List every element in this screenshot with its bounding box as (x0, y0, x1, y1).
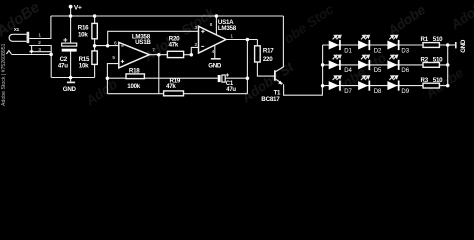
svg-text:GND: GND (63, 86, 77, 93)
svg-text:R1: R1 (421, 36, 429, 43)
svg-text:Adobe Stock | #752608951: Adobe Stock | #752608951 (1, 43, 7, 106)
svg-text:510: 510 (433, 77, 443, 84)
svg-text:47k: 47k (166, 83, 176, 90)
svg-text:BC817: BC817 (261, 96, 280, 103)
svg-text:47u: 47u (226, 87, 236, 93)
svg-text:4: 4 (212, 49, 215, 55)
svg-text:100k: 100k (127, 83, 140, 90)
svg-text:D7: D7 (344, 89, 352, 95)
svg-text:R17: R17 (263, 48, 274, 55)
svg-text:6: 6 (114, 40, 117, 46)
svg-text:5: 5 (112, 55, 115, 61)
svg-text:47u: 47u (58, 63, 68, 70)
svg-text:R18: R18 (129, 67, 140, 74)
svg-text:220: 220 (263, 56, 273, 63)
svg-text:10k: 10k (78, 32, 88, 39)
svg-text:D5: D5 (374, 68, 382, 74)
svg-text:D1: D1 (344, 48, 352, 54)
svg-text:GND: GND (460, 39, 467, 53)
svg-text:GND: GND (208, 63, 222, 70)
svg-text:X1: X1 (14, 27, 20, 32)
svg-text:10k: 10k (79, 63, 89, 70)
svg-text:D9: D9 (401, 89, 409, 95)
svg-text:V+: V+ (74, 5, 82, 12)
svg-text:8: 8 (210, 22, 213, 28)
svg-text:2: 2 (195, 42, 198, 48)
svg-text:D8: D8 (374, 89, 382, 95)
svg-text:1: 1 (230, 33, 233, 39)
svg-text:47k: 47k (169, 41, 179, 48)
svg-text:3: 3 (38, 47, 41, 53)
svg-text:3: 3 (195, 25, 198, 31)
svg-text:510: 510 (433, 57, 443, 64)
svg-text:7: 7 (152, 48, 155, 54)
svg-text:US1B: US1B (135, 39, 151, 46)
svg-text:2: 2 (38, 40, 41, 46)
svg-text:D6: D6 (401, 68, 409, 74)
svg-text:D2: D2 (374, 48, 382, 54)
svg-text:R2: R2 (421, 57, 429, 64)
svg-text:R3: R3 (421, 77, 429, 84)
svg-text:D4: D4 (344, 68, 352, 74)
svg-text:LM358: LM358 (218, 25, 237, 32)
svg-text:D3: D3 (401, 48, 409, 54)
svg-text:1: 1 (38, 32, 41, 38)
svg-text:510: 510 (433, 36, 443, 43)
